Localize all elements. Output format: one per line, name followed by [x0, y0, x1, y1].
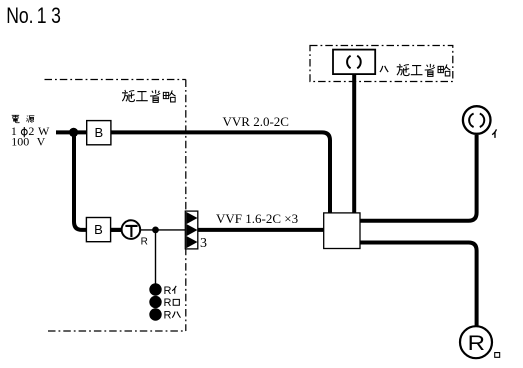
wire: vertical drop from source junction to second breaker: [74, 132, 125, 230]
ceiling rose (square) ha: [333, 50, 375, 75]
svg-text:No.13: No.13: [6, 4, 61, 28]
svg-text:R: R: [141, 237, 148, 248]
terminal block (remote relays): [185, 211, 207, 251]
remote switch R-i: [149, 283, 161, 295]
label R-i: [164, 285, 177, 297]
wire: junction box to receptacle ro: [360, 243, 477, 327]
dashed outline top construction-omitted region: [310, 46, 453, 82]
label ha: [380, 66, 388, 72]
wire: breaker B2 to timer transformer: [110, 228, 123, 232]
svg-text:R: R: [468, 330, 485, 354]
label R-ha: [164, 310, 181, 322]
label construction omitted (left): [122, 90, 176, 102]
wire: thin drop to remote switches: [155, 230, 157, 284]
label power source: [12, 115, 35, 123]
lamp receptacle R ro: [460, 326, 492, 358]
svg-text:3: 3: [200, 236, 207, 251]
svg-text:R: R: [164, 310, 172, 322]
label construction omitted (top): [397, 64, 451, 76]
breaker B1: [87, 121, 111, 145]
wire: thin remote-control run T to terminal block: [140, 229, 185, 231]
wire: VVF run terminal block to junction box: [198, 228, 324, 232]
svg-text:B: B: [94, 222, 103, 237]
label i: [492, 129, 496, 138]
svg-text:R: R: [164, 297, 172, 309]
svg-text:VVR 2.0-2C: VVR 2.0-2C: [223, 114, 289, 129]
label R-ro: [164, 297, 180, 309]
wire: ceiling ha drop to junction box: [352, 70, 356, 213]
wire: junction box to ceiling i: [360, 135, 477, 221]
junction box: [324, 213, 360, 249]
remote switch R-ha: [149, 308, 161, 320]
wire: source horizontal VVR run with corner down to junction box: [56, 132, 330, 213]
svg-text:B: B: [94, 125, 103, 140]
remote switch R-ro: [149, 296, 161, 308]
svg-text:R: R: [164, 285, 172, 297]
svg-text:100V: 100V: [11, 135, 45, 149]
svg-text:VVF 1.6-2C ×3: VVF 1.6-2C ×3: [216, 211, 298, 226]
dashed outline left construction-omitted region: [45, 80, 186, 332]
node: source junction dot: [69, 128, 78, 137]
ceiling rose (round) i: [463, 106, 491, 134]
node: remote circuit junction dot: [152, 227, 159, 234]
breaker B2: [86, 218, 110, 242]
remote transformer T: [122, 220, 148, 247]
label ro: [495, 353, 500, 358]
